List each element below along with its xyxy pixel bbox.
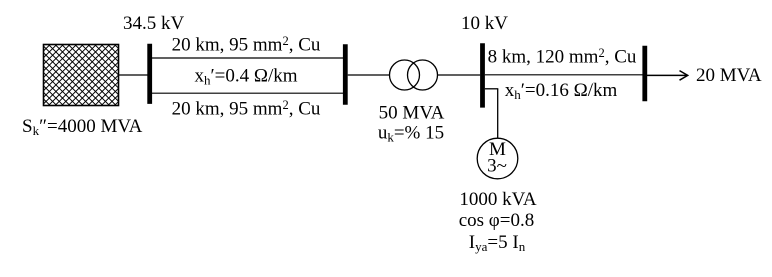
svg-text:34.5 kV: 34.5 kV xyxy=(123,13,185,34)
svg-text:xh′=0.4 Ω/km: xh′=0.4 Ω/km xyxy=(194,66,297,88)
svg-text:xh′=0.16 Ω/km: xh′=0.16 Ω/km xyxy=(505,80,618,102)
motor M1 (circle) xyxy=(477,138,518,179)
svg-text:3~: 3~ xyxy=(487,156,507,177)
wire busbar B to transformer T1 xyxy=(348,74,390,76)
load arrow 20 MVA xyxy=(647,74,687,76)
busbar D xyxy=(642,46,647,102)
svg-text:20 km, 95 mm2, Cu: 20 km, 95 mm2, Cu xyxy=(172,34,321,56)
svg-text:20 km, 95 mm2, Cu: 20 km, 95 mm2, Cu xyxy=(172,98,321,120)
svg-text:8 km, 120 mm2, Cu: 8 km, 120 mm2, Cu xyxy=(488,46,637,68)
svg-text:Sk″=4000 MVA: Sk″=4000 MVA xyxy=(22,116,143,138)
svg-text:20 MVA: 20 MVA xyxy=(696,65,762,86)
overhead line L1 top circuit (20 km) xyxy=(152,57,343,59)
wire transformer T1 to busbar C xyxy=(437,74,480,76)
wire source to busbar A xyxy=(118,74,148,76)
svg-text:Iya=5 In: Iya=5 In xyxy=(469,232,526,254)
network feeder source (crosshatched box) Sk" xyxy=(0,45,182,106)
busbar B xyxy=(343,44,348,105)
svg-text:1000 kVA: 1000 kVA xyxy=(459,189,537,210)
overhead line L2 bottom circuit (20 km) xyxy=(152,92,343,94)
transformer T1 (two-winding, 50 MVA) xyxy=(390,60,420,90)
busbar C (10 kV) xyxy=(480,43,485,107)
svg-text:10 kV: 10 kV xyxy=(461,13,508,34)
svg-text:uk=% 15: uk=% 15 xyxy=(378,123,444,145)
cable L3 (8 km) busbar C to busbar D xyxy=(485,74,643,76)
busbar A (34.5 kV) xyxy=(147,44,152,104)
svg-text:50 MVA: 50 MVA xyxy=(379,103,445,124)
wire stub busbar C to motor branch xyxy=(485,88,498,90)
wire motor branch vertical xyxy=(497,89,499,139)
svg-text:cos φ=0.8: cos φ=0.8 xyxy=(459,210,535,231)
